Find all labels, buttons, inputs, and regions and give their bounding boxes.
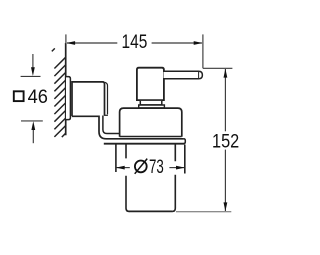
dimension 152 line	[224, 69, 226, 211]
extension line right (spout tip)	[202, 34, 204, 68]
dimension 46 lower arrow (up)	[31, 121, 35, 130]
holder arm outer edge	[99, 116, 184, 139]
dimension 46 lower extension line	[21, 120, 43, 122]
dispenser cap	[120, 108, 182, 137]
dimension 145 line	[67, 42, 202, 44]
wall hatching	[52, 48, 66, 137]
svg-text:46: 46	[28, 86, 48, 108]
cap bottom line	[120, 136, 182, 138]
bracket body bottom face segment	[104, 114, 108, 116]
glass outer wall right	[184, 145, 186, 174]
bracket body bottom edge	[72, 115, 99, 117]
glass outer wall left	[115, 145, 117, 173]
square symbol 46	[14, 91, 24, 101]
holder arm inner edge	[103, 116, 120, 134]
spout end face line	[198, 72, 200, 79]
glass inner wall left	[126, 145, 129, 212]
pump neck flare	[139, 105, 165, 108]
ring bottom / glass top line	[104, 143, 185, 145]
dimension 46 upper extension line	[21, 75, 41, 77]
dimension 145 arrows	[66, 41, 75, 45]
dimension 152 top extension	[203, 67, 233, 69]
dimension 46 upper shaft	[32, 54, 34, 69]
svg-text:145: 145	[122, 32, 148, 53]
pump neck	[140, 101, 162, 105]
dimension 152 arrows	[224, 69, 228, 78]
wall line	[65, 43, 67, 135]
glass bottom	[129, 210, 172, 212]
dimension O73 arrows	[116, 166, 125, 170]
bracket body	[72, 82, 105, 116]
dimension 46 upper arrow (down)	[31, 67, 35, 76]
bracket body face edge	[105, 82, 108, 114]
glass inner wall right	[172, 145, 175, 212]
dimension O73 label: diameter symbol	[135, 161, 147, 173]
svg-text:152: 152	[212, 131, 239, 152]
svg-text:73: 73	[149, 156, 164, 178]
pump head	[137, 68, 164, 100]
ring right edge	[184, 139, 186, 144]
extension line left (wall top)	[65, 34, 67, 44]
dimension 46 lower shaft	[32, 129, 34, 144]
dimension 152 bottom extension	[176, 211, 231, 213]
wall plate (escutcheon)	[66, 77, 70, 120]
dimension O73 line	[116, 167, 184, 169]
spout lever	[164, 71, 203, 79]
